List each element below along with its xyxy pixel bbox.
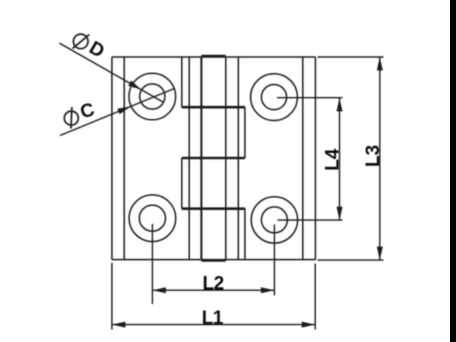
leader line D <box>59 43 163 102</box>
svg-text:L3: L3 <box>363 145 384 167</box>
dimension line L1 <box>112 324 315 326</box>
svg-text:L2: L2 <box>203 274 224 295</box>
hole top-left counterbore <box>129 73 176 120</box>
right leaf left edge <box>237 57 239 260</box>
right leaf inner line <box>302 57 304 260</box>
hole bottom-right bore <box>261 207 287 233</box>
barrel left edge <box>188 57 190 260</box>
knuckle joint line 3 <box>182 207 245 210</box>
extension line top edge right <box>318 56 384 58</box>
hole bottom-left bore <box>139 205 165 231</box>
arrow L4 top <box>337 98 343 112</box>
arrow L1 right <box>302 322 316 328</box>
top edge <box>112 56 316 58</box>
knuckle tab right edge lower <box>244 209 246 260</box>
extension line bottom-right hole center <box>278 219 343 221</box>
knuckle joint line 2 <box>182 157 245 160</box>
extension line left edge down <box>111 263 113 330</box>
knuckle joint line 1 <box>182 106 245 109</box>
arrow D <box>128 81 141 90</box>
leader line C <box>60 89 174 136</box>
dimension line L2 <box>152 289 274 291</box>
barrel top cap <box>201 55 225 58</box>
svg-text:L1: L1 <box>202 308 224 329</box>
extension line bottom-left hole center <box>151 224 153 304</box>
arrow L3 bottom <box>377 247 383 261</box>
dimension line L4 <box>339 98 341 220</box>
barrel right edge <box>225 57 227 260</box>
diameter symbol of C label <box>64 107 78 129</box>
bottom edge <box>112 259 316 261</box>
right leaf right edge <box>314 57 316 260</box>
barrel bottom cap <box>201 259 225 262</box>
hole bottom-right counterbore <box>251 197 297 243</box>
dimension line L3 <box>379 57 381 260</box>
extension line bottom-right hole center down <box>273 225 275 296</box>
arrow L1 left <box>112 322 126 328</box>
hole bottom-left counterbore <box>129 195 176 242</box>
hole top-right counterbore <box>251 74 298 121</box>
arrow L2 left <box>152 287 166 293</box>
hinge pin line <box>200 57 202 260</box>
diameter symbol of D label <box>73 34 90 49</box>
extension line bottom edge right <box>318 259 384 261</box>
left leaf right edge upper segment <box>181 57 183 107</box>
svg-text:C: C <box>78 99 97 123</box>
knuckle tab right edge upper <box>244 107 246 158</box>
left leaf left edge <box>111 57 113 260</box>
black sidebar <box>450 0 456 342</box>
svg-text:L4: L4 <box>323 148 344 171</box>
left leaf right edge middle segment <box>181 158 183 209</box>
hole top-left bore <box>140 84 165 109</box>
left leaf inner line <box>123 57 125 260</box>
arrow L3 top <box>377 57 383 71</box>
arrow L2 right <box>261 287 275 293</box>
arrow L4 bottom <box>337 207 343 221</box>
extension line top-right hole center <box>277 97 343 99</box>
arrow C <box>117 106 131 114</box>
extension line right edge down <box>314 264 316 330</box>
hole top-right bore <box>261 85 286 110</box>
